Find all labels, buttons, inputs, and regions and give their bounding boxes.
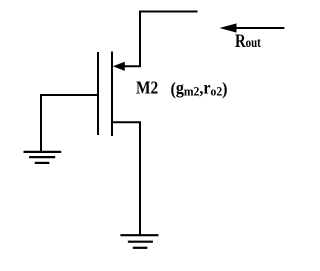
svg-text:Rout: Rout xyxy=(235,31,261,52)
svg-text:M2: M2 xyxy=(136,78,158,98)
svg-text:(gm2,ro2): (gm2,ro2) xyxy=(171,78,228,100)
